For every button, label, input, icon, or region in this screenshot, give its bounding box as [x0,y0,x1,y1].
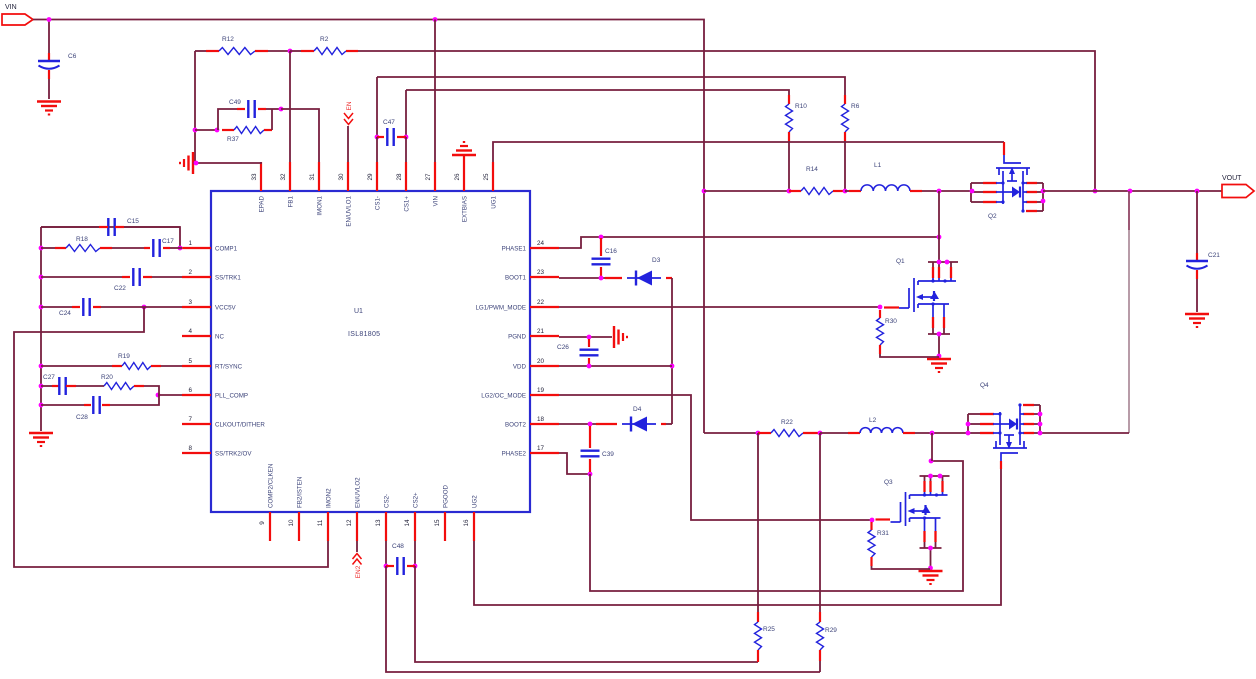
svg-text:10: 10 [288,519,295,527]
svg-text:7: 7 [188,416,192,423]
svg-text:6: 6 [188,387,192,394]
svg-text:EN/UVLO1: EN/UVLO1 [345,195,352,226]
svg-text:C39: C39 [602,451,614,458]
svg-text:IMON2: IMON2 [325,488,332,508]
svg-text:18: 18 [537,416,545,423]
svg-text:8: 8 [188,445,192,452]
svg-text:12: 12 [346,519,353,527]
svg-text:EXTBIAS: EXTBIAS [461,196,468,222]
svg-text:20: 20 [537,358,545,365]
svg-text:UG2: UG2 [471,495,478,508]
svg-text:VIN: VIN [432,196,439,206]
svg-text:R30: R30 [885,318,897,325]
svg-text:31: 31 [309,173,316,181]
svg-text:3: 3 [188,299,192,306]
svg-text:2: 2 [188,269,192,276]
svg-text:PHASE2: PHASE2 [502,450,527,457]
svg-text:9: 9 [259,521,266,525]
svg-text:26: 26 [454,173,461,181]
svg-text:LG2/OC_MODE: LG2/OC_MODE [481,392,526,399]
svg-text:VIN: VIN [5,4,17,11]
svg-text:17: 17 [537,445,545,452]
svg-text:25: 25 [483,173,490,181]
svg-text:5: 5 [188,358,192,365]
svg-text:15: 15 [434,519,441,527]
svg-text:R18: R18 [76,236,88,243]
svg-text:R29: R29 [825,627,837,634]
svg-text:C26: C26 [557,344,569,351]
svg-text:RT/SYNC: RT/SYNC [215,363,243,370]
svg-text:C15: C15 [127,218,139,225]
svg-text:19: 19 [537,387,545,394]
svg-text:C49: C49 [229,99,241,106]
svg-text:14: 14 [404,519,411,527]
svg-text:R25: R25 [763,626,775,633]
svg-text:Q4: Q4 [980,382,989,389]
svg-text:R22: R22 [781,419,793,426]
svg-text:C6: C6 [68,53,77,60]
svg-text:PHASE1: PHASE1 [502,245,527,252]
svg-text:VCC5V: VCC5V [215,304,237,311]
svg-text:C24: C24 [59,310,71,317]
svg-text:D3: D3 [652,257,661,264]
svg-text:R37: R37 [227,136,239,143]
svg-text:U1: U1 [354,308,363,315]
svg-text:22: 22 [537,299,545,306]
svg-text:EPAD: EPAD [258,195,265,212]
svg-text:C47: C47 [383,119,395,126]
svg-text:CS2+: CS2+ [412,492,419,508]
svg-text:BOOT1: BOOT1 [505,274,527,281]
svg-text:COMP1: COMP1 [215,245,238,252]
svg-text:SS/TRK2/OV: SS/TRK2/OV [215,450,252,457]
svg-text:R2: R2 [320,36,329,43]
svg-text:13: 13 [375,519,382,527]
svg-text:C27: C27 [43,374,55,381]
svg-text:Q2: Q2 [988,213,997,220]
svg-text:UG1: UG1 [490,195,497,208]
svg-text:R14: R14 [806,166,818,173]
svg-text:CS1+: CS1+ [403,196,410,212]
svg-text:COMP2/CLKEN: COMP2/CLKEN [267,464,274,508]
svg-text:VDD: VDD [513,363,527,370]
svg-text:11: 11 [317,519,324,526]
svg-text:Q1: Q1 [896,258,905,265]
svg-text:PGOOD: PGOOD [442,484,449,508]
svg-text:1: 1 [188,240,192,247]
svg-text:LG1/PWM_MODE: LG1/PWM_MODE [475,304,526,311]
svg-text:16: 16 [463,519,470,527]
svg-text:VOUT: VOUT [1222,175,1242,182]
svg-text:CLKOUT/DITHER: CLKOUT/DITHER [215,421,265,428]
svg-text:IMON1: IMON1 [316,195,323,215]
svg-text:EN/UVLO2: EN/UVLO2 [354,477,361,508]
svg-text:23: 23 [537,269,545,276]
svg-text:32: 32 [280,173,287,181]
svg-text:BOOT2: BOOT2 [505,421,527,428]
svg-text:CS2-: CS2- [383,494,390,508]
svg-text:R6: R6 [851,103,860,110]
svg-text:R12: R12 [222,36,234,43]
svg-text:EN: EN [346,101,353,110]
svg-text:C17: C17 [162,238,174,245]
svg-text:EN2: EN2 [355,565,362,578]
svg-text:R20: R20 [101,374,113,381]
svg-text:SS/TRK1: SS/TRK1 [215,274,241,281]
svg-text:FB2/ISTEN: FB2/ISTEN [296,477,303,508]
svg-text:PGND: PGND [508,333,526,340]
svg-text:FB1: FB1 [287,195,294,207]
svg-text:R19: R19 [118,353,130,360]
svg-text:L2: L2 [869,417,877,424]
svg-text:24: 24 [537,240,545,247]
svg-text:D4: D4 [633,406,642,413]
svg-text:28: 28 [396,173,403,181]
svg-text:C48: C48 [392,543,404,550]
svg-text:R10: R10 [795,103,807,110]
svg-text:C28: C28 [76,414,88,421]
svg-text:R31: R31 [877,530,889,537]
svg-text:C22: C22 [114,285,126,292]
svg-text:29: 29 [367,173,374,181]
svg-text:C16: C16 [605,248,617,255]
svg-text:PLL_COMP: PLL_COMP [215,392,248,399]
svg-text:C21: C21 [1208,252,1220,259]
svg-text:ISL81805: ISL81805 [348,331,380,338]
svg-text:30: 30 [338,173,345,181]
svg-text:CS1-: CS1- [374,196,381,210]
svg-text:NC: NC [215,333,224,340]
svg-text:L1: L1 [874,162,882,169]
svg-text:27: 27 [425,173,432,181]
svg-text:33: 33 [251,173,258,181]
svg-text:4: 4 [188,328,192,335]
svg-text:Q3: Q3 [884,479,893,486]
svg-text:21: 21 [537,328,545,335]
